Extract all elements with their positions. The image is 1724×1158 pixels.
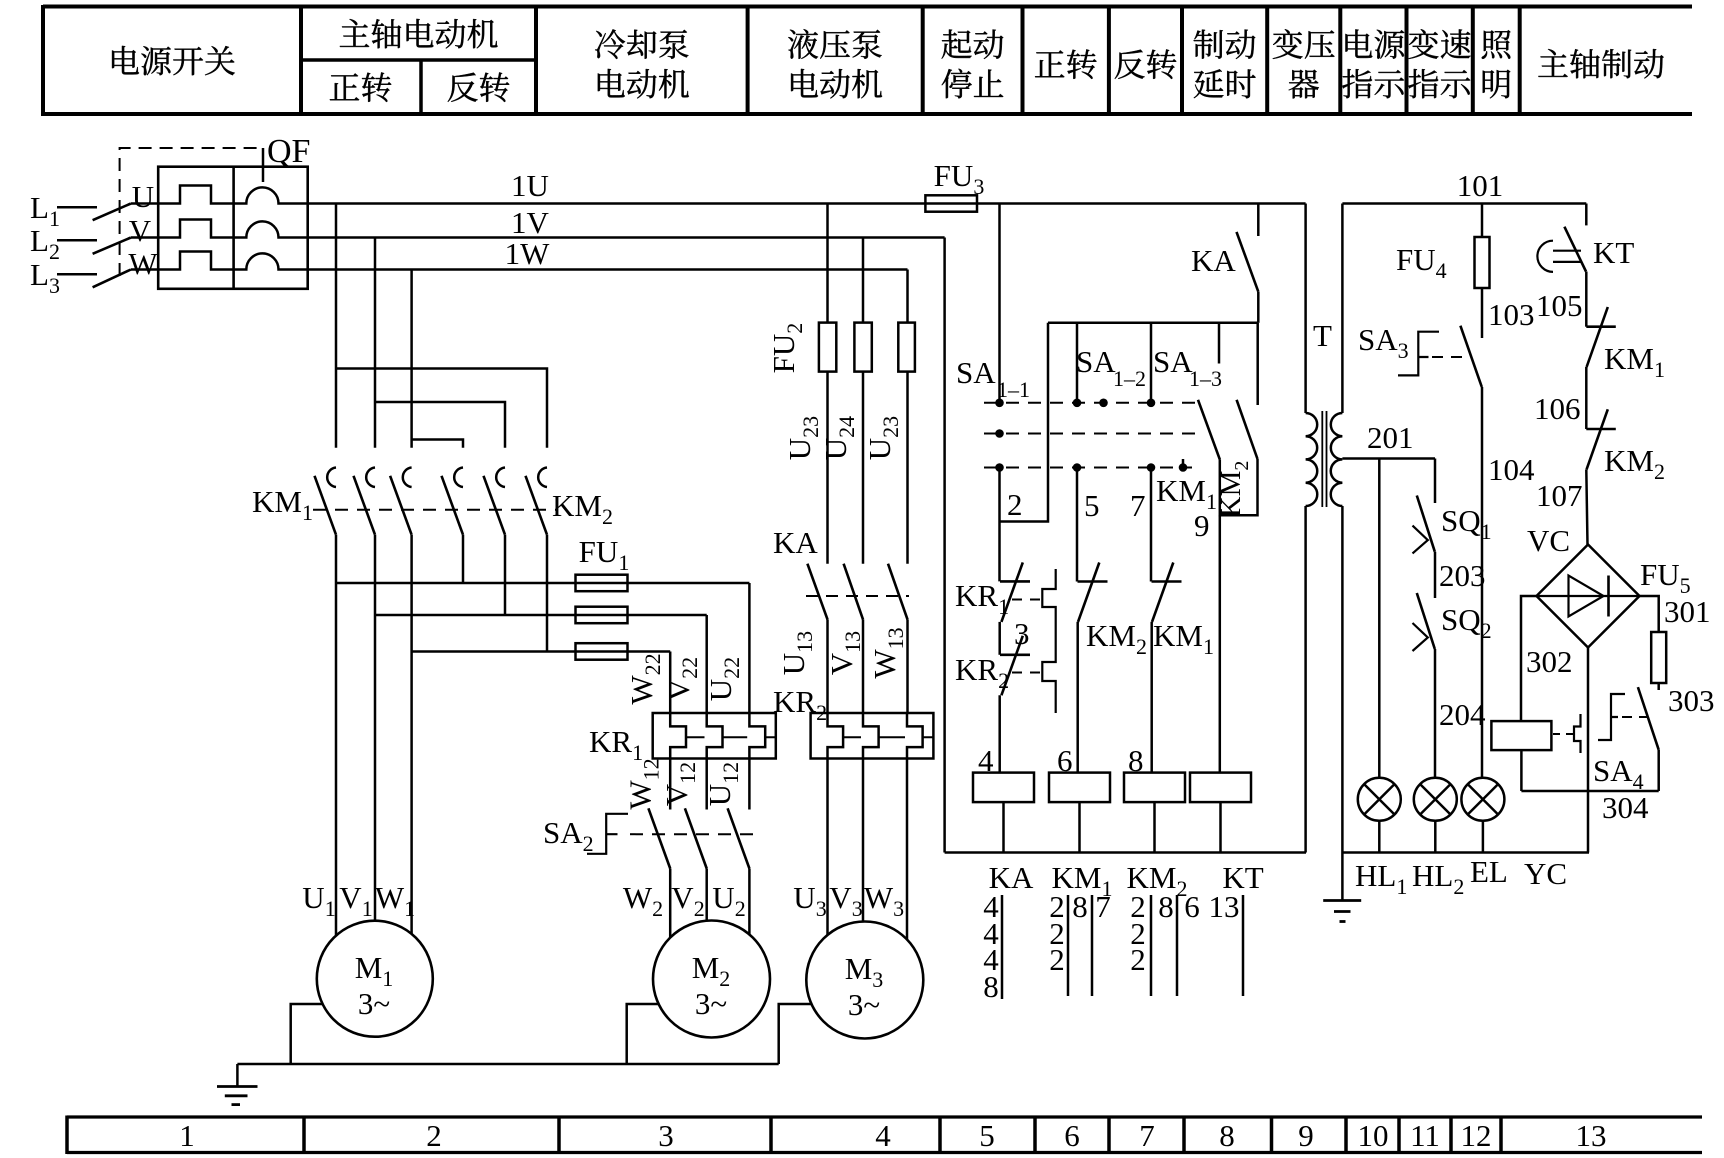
svg-text:KA: KA <box>1191 243 1236 278</box>
contactor main contact pole at x=336 : blade <box>315 476 337 535</box>
wire KR2 to M3 U3 <box>826 759 829 936</box>
wire KM2 pole1 bottom <box>462 535 465 583</box>
svg-text:7: 7 <box>1095 889 1111 924</box>
contactor main contact pole at x=375 : arc <box>366 468 375 488</box>
wire U24 to KA pole2 <box>862 372 865 564</box>
svg-text:T: T <box>1313 318 1332 353</box>
contactor main contact pole at x=411.6 : blade <box>390 476 412 535</box>
lamp EL <box>1461 778 1504 821</box>
circuit breaker QF : blade L1 <box>93 204 131 221</box>
node SA1 contact dot (1183,467.5) <box>1179 463 1188 472</box>
wire to M2 terminal V2 <box>705 869 708 921</box>
lamp HL1 <box>1358 778 1401 821</box>
wire U12 KR1 output <box>748 759 751 810</box>
bottom zone-number table 1-13 <box>67 1115 1702 1118</box>
wire 201 tap <box>1342 457 1435 460</box>
thermal contact KR1 (NC) blade <box>1001 562 1022 622</box>
wire V22 <box>705 615 708 713</box>
wire KM1 branch column mid <box>1076 468 1079 582</box>
wire U phase drop to KM1 pole1 <box>335 204 338 448</box>
wire lamp return rail <box>1342 851 1589 854</box>
thermal contact KR2 (NC) bar <box>1000 653 1030 656</box>
motor M3 <box>806 922 923 1039</box>
contactor main contact pole at x=463 : arc <box>454 468 463 488</box>
svg-text:1–1: 1–1 <box>997 377 1030 402</box>
thermal relay KR1 heater element at x=749.4 <box>749 713 765 759</box>
wire phase B link to FU1 <box>375 614 707 617</box>
thermal actuator dashes KR2 <box>1012 672 1042 674</box>
svg-text:1U: 1U <box>511 168 549 203</box>
svg-text:1W: 1W <box>505 236 551 271</box>
thermal relay KR1 internal dashes <box>686 736 776 738</box>
wire KM1 pole3 to motor M1 W1 <box>410 535 413 934</box>
svg-text:2: 2 <box>1130 942 1146 977</box>
svg-text:8: 8 <box>1158 889 1174 924</box>
svg-text:5: 5 <box>1084 488 1100 523</box>
contactor main contact pole at x=547 : blade <box>526 476 548 535</box>
contactor main contact pole at x=505 : blade <box>484 476 506 535</box>
switch SA4 dashes <box>1622 716 1647 718</box>
wire KM2 coil to rail <box>1153 802 1156 852</box>
fuse FU2 element 2 <box>854 323 871 372</box>
svg-text:3~: 3~ <box>358 986 390 1021</box>
thermal relay KR2 heater element at x=863 <box>863 713 879 759</box>
svg-text:204: 204 <box>1439 697 1486 732</box>
limit switch SQ2 blade <box>1417 593 1435 649</box>
wire KM2 coil feed <box>1150 622 1153 773</box>
wire VC to FU5 <box>1640 596 1659 632</box>
switch SA2 linkage dashed <box>630 833 757 835</box>
wire to KA pole3 <box>906 372 909 564</box>
node SA1 contact dot (1103.5,402.8) <box>1099 399 1108 408</box>
wire 107 <box>1586 469 1587 544</box>
transformer T primary coil <box>1306 413 1318 506</box>
wire 203 <box>1434 552 1437 598</box>
relay contact KA (ladder) wire bottom <box>1257 292 1260 323</box>
circuit breaker QF : linkage dashed box <box>120 148 263 276</box>
svg-text:104: 104 <box>1488 452 1535 487</box>
svg-text:SA: SA <box>1076 344 1116 379</box>
svg-text:3: 3 <box>658 1118 674 1153</box>
svg-text:SA: SA <box>956 355 996 390</box>
relay KA pole3 blade <box>888 564 908 620</box>
ground symbol <box>236 1064 239 1087</box>
wire KA branch column upper <box>998 468 1001 582</box>
wire 103 <box>1481 288 1484 338</box>
svg-text:13: 13 <box>1209 889 1240 924</box>
wire V crossover to KM2 pole2 <box>375 402 505 448</box>
node SA1 contact dot (999.5,402.8) <box>995 399 1004 408</box>
svg-text:6: 6 <box>1064 1118 1080 1153</box>
svg-text:QF: QF <box>267 133 310 170</box>
svg-text:303: 303 <box>1668 683 1715 718</box>
wire control feed from 1U at x=999 <box>998 204 1001 403</box>
svg-text:7: 7 <box>1130 488 1146 523</box>
wire stub above dot 1183 <box>1182 459 1185 468</box>
relay KA pole1 blade <box>807 564 827 620</box>
svg-text:8: 8 <box>983 969 999 1004</box>
switch SA2 operator bracket <box>587 814 628 854</box>
thermal relay KR2 internal dashes <box>843 736 933 738</box>
thermal contact KR2 (NC) blade <box>1001 636 1022 696</box>
wire 1V bus <box>131 220 945 238</box>
wire W phase drop to KM1 pole3 <box>410 270 413 448</box>
fuse FU4 <box>1475 237 1490 288</box>
wire SQ branch top <box>1434 459 1437 504</box>
solenoid YC armature dashes <box>1553 733 1573 735</box>
wire V phase drop to KM1 pole2 <box>374 238 377 448</box>
wire tap from 1W <box>906 270 909 323</box>
wire W22 <box>669 652 672 714</box>
wire KM2 branch column mid <box>1150 468 1153 582</box>
circuit breaker QF : body box <box>158 167 308 289</box>
coil KT <box>1190 773 1251 803</box>
brake interlock KM1 (NC) blade <box>1587 307 1608 367</box>
switch SA2 blade W12 <box>648 808 670 868</box>
switch SA4 blade <box>1638 687 1659 750</box>
rectifier VC diode <box>1569 576 1604 617</box>
wire U22 <box>748 583 751 713</box>
relay contact KA (ladder) wire top <box>1257 204 1260 237</box>
switch SA1 position row 2 dashed <box>984 433 1198 435</box>
circuit breaker QF : blade L2 <box>93 238 131 254</box>
svg-text:101: 101 <box>1457 168 1504 203</box>
node SA1 contact dot (1077,467.5) <box>1073 463 1082 472</box>
svg-text:2: 2 <box>1007 487 1023 522</box>
solenoid YC armature <box>1574 714 1581 753</box>
wire VC bottom vertex to rail <box>1587 648 1590 853</box>
wire branch KM2 column from bus <box>1150 323 1153 403</box>
wire branch KM1 column from bus <box>1076 323 1079 403</box>
svg-text:5: 5 <box>979 1118 995 1153</box>
wire V13 <box>862 619 865 713</box>
svg-text:10: 10 <box>1358 1118 1389 1153</box>
transformer T secondary ground wire <box>1341 506 1344 901</box>
fuse FU2 element 1 <box>819 323 836 372</box>
svg-text:U: U <box>132 179 154 214</box>
contactor main contact pole at x=547 : arc <box>538 468 547 488</box>
node SA1 contact dot (1151,402.8) <box>1147 399 1156 408</box>
svg-text:107: 107 <box>1536 478 1583 513</box>
M3 frame earth stub <box>779 1004 812 1064</box>
svg-text:VC: VC <box>1527 523 1570 558</box>
svg-text:302: 302 <box>1526 644 1573 679</box>
svg-text:301: 301 <box>1664 594 1711 629</box>
svg-text:KT: KT <box>1593 235 1634 270</box>
wire U13 <box>826 619 829 713</box>
wire KA output bus <box>1048 322 1258 325</box>
svg-text:203: 203 <box>1439 558 1486 593</box>
thermal contact KR1 (NC) bar <box>1000 580 1030 583</box>
switch SA1 position row 1 dashed <box>984 402 1198 404</box>
thermal relay KR1 heater box <box>653 713 776 759</box>
wire KR2 to M3 V3 <box>862 759 865 922</box>
thermal relay KR1 heater element at x=670.2 <box>670 713 686 759</box>
transformer T primary wire <box>1304 204 1307 414</box>
transformer T core <box>1321 411 1323 507</box>
contactor main contact pole at x=463 : blade <box>442 476 464 535</box>
wire V12 KR1 output <box>705 759 708 810</box>
limit switch SQ2 wedge <box>1413 623 1428 651</box>
transformer T primary bottom wire to control rail <box>1304 506 1307 853</box>
ground bus along motors <box>237 1063 778 1066</box>
contactor main contact pole at x=411.6 : arc <box>403 468 412 488</box>
node L2 supply lead <box>57 239 97 242</box>
wire 303 <box>1657 683 1660 690</box>
svg-text:2: 2 <box>426 1118 442 1153</box>
wire 105 <box>1585 272 1588 327</box>
motor M1 <box>317 921 433 1037</box>
node L1 supply lead <box>57 206 97 209</box>
svg-text:KA: KA <box>773 525 818 560</box>
relay KA linkage dashed <box>806 595 909 597</box>
node L3 supply lead <box>57 273 97 276</box>
wire KM2 pole2 bottom <box>504 535 507 615</box>
contactor interlock KM1 (NC) blade <box>1152 563 1173 622</box>
contactor main contact pole at x=336 : arc <box>327 468 336 488</box>
fuse FU1 element 2 <box>576 607 628 624</box>
node SA1 contact dot (1077,402.8) <box>1073 399 1082 408</box>
svg-text:9: 9 <box>1194 508 1210 543</box>
wire 1W bus <box>131 252 908 270</box>
fuse FU4 wire <box>1481 204 1484 238</box>
thermal relay KR2 heater element at x=827.5 <box>828 713 844 759</box>
time contact KT delay arc <box>1537 241 1553 272</box>
node SA1 contact dot (999.5,433.5) <box>995 429 1004 438</box>
wire KT coil to rail <box>1219 802 1222 852</box>
node SA1 contact dot (1151,467.5) <box>1147 463 1156 472</box>
wire KM1 pole1 to motor M1 U1 <box>335 535 338 936</box>
circuit breaker QF : label stub <box>262 148 265 182</box>
svg-text:8: 8 <box>1219 1118 1235 1153</box>
svg-text:W: W <box>128 246 158 281</box>
lamp HL2 <box>1414 778 1457 821</box>
svg-text:1: 1 <box>179 1118 195 1153</box>
svg-text:1V: 1V <box>511 205 550 240</box>
wire KM1 pole2 to motor M1 V1 <box>374 535 377 921</box>
svg-text:2: 2 <box>1049 942 1065 977</box>
thermal relay KR2 heater box <box>811 713 934 759</box>
contact KM2 aux blade <box>1237 400 1258 459</box>
wire YC coil bottom <box>1520 750 1523 791</box>
svg-text:3: 3 <box>1014 616 1030 651</box>
wire KT coil feed <box>1219 515 1222 772</box>
svg-text:6: 6 <box>1184 889 1200 924</box>
wire W13 <box>906 619 909 713</box>
wire bottom link 791 <box>1521 790 1658 793</box>
limit switch SQ1 wedge <box>1413 526 1428 554</box>
time contact KT parallel lines <box>1553 250 1581 252</box>
coil KM2 <box>1124 773 1185 803</box>
svg-text:1–2: 1–2 <box>1113 366 1146 391</box>
svg-text:EL: EL <box>1470 854 1508 889</box>
svg-text:8: 8 <box>1072 889 1088 924</box>
M2 frame earth stub <box>627 1004 659 1064</box>
wire KA coil feed <box>998 695 1001 772</box>
transformer T secondary coil <box>1331 413 1343 506</box>
fuse FU3 <box>925 195 977 211</box>
coil KM1 <box>1049 773 1110 803</box>
brake interlock KM2 (NC) bar <box>1586 428 1616 431</box>
wire W-U crossover to KM2 pole1 <box>412 440 463 448</box>
svg-text:3~: 3~ <box>848 987 880 1022</box>
node SA1 contact dot (999.5,467.5) <box>995 463 1004 472</box>
svg-text:YC: YC <box>1524 856 1567 891</box>
M1 frame earth stub <box>291 1004 323 1064</box>
svg-text:103: 103 <box>1488 297 1535 332</box>
thermal actuator dashes KR1 <box>1012 599 1042 601</box>
fuse FU1 element 3 <box>576 643 628 660</box>
wire between KR1 and KR2 contacts <box>998 622 1001 655</box>
contactor interlock KM2 (NC) bar <box>1078 580 1108 583</box>
contactor main contact pole at x=505 : arc <box>496 468 505 488</box>
svg-text:304: 304 <box>1602 790 1649 825</box>
wire U24 tap from 1V <box>862 238 865 323</box>
thermal contacts actuator notched bar <box>1042 569 1055 713</box>
rectifier VC diamond <box>1537 545 1640 648</box>
KM2 aux / SA1-3 junction box <box>1220 459 1258 515</box>
switch SA3 operator bracket <box>1398 332 1439 376</box>
rectifier VC diagonal <box>1537 595 1640 597</box>
circuit breaker QF : blade L3 <box>93 270 131 288</box>
wire to M2 terminal W2 <box>669 869 672 938</box>
contactor KM1 linkage dashed <box>313 509 558 511</box>
wire KM1 coil feed <box>1076 622 1079 773</box>
svg-text:V: V <box>129 213 152 248</box>
transformer T secondary wire top <box>1341 204 1344 414</box>
wire SA4 down <box>1657 750 1660 791</box>
wire control return rail <box>945 851 1306 854</box>
fuse FU2 element 3 <box>898 323 915 372</box>
svg-text:7: 7 <box>1139 1118 1155 1153</box>
contact KM2 aux wire from bus <box>1256 323 1259 405</box>
thermal relay KR1 heater element at x=706.7 <box>707 713 723 759</box>
svg-text:12: 12 <box>1461 1118 1492 1153</box>
svg-text:105: 105 <box>1536 288 1583 323</box>
wire KA coil to rail <box>1002 802 1005 852</box>
wire W12 KR1 output <box>669 759 672 810</box>
switch SA2 blade U12 <box>728 808 750 868</box>
wire step link from SA1-1 column to KA contact column <box>1000 323 1049 522</box>
wire control return column from 1V <box>943 238 946 853</box>
switch SA4 operator bracket <box>1598 694 1625 740</box>
contactor interlock KM2 (NC) blade <box>1078 563 1099 622</box>
brake solenoid YC coil <box>1491 721 1551 750</box>
brake interlock KM2 (NC) blade <box>1587 409 1608 469</box>
time contact KT blade <box>1564 227 1586 272</box>
wire 104 to lamp EL <box>1481 387 1484 778</box>
wire 106 <box>1585 367 1588 429</box>
switch SA2 blade V12 <box>685 808 707 868</box>
svg-text:1–3: 1–3 <box>1189 366 1222 391</box>
fuse FU1 element 1 <box>576 575 628 592</box>
svg-text:SA: SA <box>1153 344 1193 379</box>
svg-text:4: 4 <box>875 1118 891 1153</box>
time contact KT wire top <box>1585 204 1588 226</box>
wire KR2 to M3 W3 <box>906 759 909 940</box>
header table: function-zone title row <box>43 5 1692 9</box>
wire HL1 branch <box>1378 459 1381 778</box>
wire to M2 terminal U2 <box>748 869 751 935</box>
switch SA3 dashes <box>1432 356 1462 358</box>
switch SA1-3 blade <box>1198 400 1220 460</box>
contactor interlock KM1 (NC) bar <box>1152 580 1182 583</box>
svg-text:201: 201 <box>1367 420 1414 455</box>
wire 1U bus (with QF contact bump and overload arc) <box>131 186 1306 204</box>
wire U23 to KA pole1 <box>826 372 829 564</box>
wire phase C link to FU1 <box>412 650 671 653</box>
wire 101 bus <box>1342 202 1586 205</box>
transformer ground symbol <box>1323 899 1361 902</box>
fuse FU5 <box>1651 632 1666 683</box>
thermal relay KR2 heater element at x=907 <box>907 713 923 759</box>
switch SA3 blade <box>1460 326 1481 387</box>
wire U23 tap from 1U <box>826 204 829 323</box>
motor M2 <box>653 921 770 1038</box>
svg-text:106: 106 <box>1534 391 1581 426</box>
wire 302 from VC left vertex <box>1521 596 1537 721</box>
switch SA1-3 wire from bus <box>1218 323 1221 364</box>
relay contact KA (ladder) blade <box>1237 232 1259 292</box>
svg-text:3~: 3~ <box>695 986 727 1021</box>
brake interlock KM1 (NC) bar <box>1586 325 1616 328</box>
coil KA <box>973 773 1034 803</box>
limit switch SQ1 blade <box>1417 496 1435 552</box>
wire KM2 pole3 bottom <box>546 535 549 652</box>
svg-text:9: 9 <box>1298 1118 1314 1153</box>
contactor main contact pole at x=375 : blade <box>354 476 376 535</box>
switch SA1 position row 3 dashed <box>984 467 1192 469</box>
wire phase A link to FU1 <box>336 582 749 585</box>
wire U-W crossover to KM2 pole3 <box>336 369 547 448</box>
wire KM1 coil to rail <box>1078 802 1081 852</box>
relay KA pole2 blade <box>844 564 863 620</box>
svg-text:13: 13 <box>1576 1118 1607 1153</box>
svg-text:11: 11 <box>1410 1118 1440 1153</box>
wire 204 to HL2 <box>1434 649 1437 778</box>
